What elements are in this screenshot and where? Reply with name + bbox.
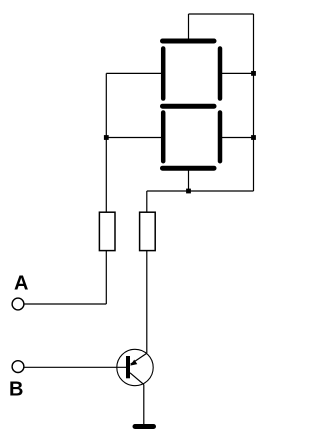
junction node bottom (186, 189, 191, 194)
display segment d (bottom) (163, 166, 215, 171)
wire bottom horizontal (147, 190, 254, 192)
wire right vertical rail (253, 14, 255, 191)
transistor Q1 base bar (126, 356, 130, 378)
wire R2 top lead (146, 191, 148, 212)
junction node right upper (251, 71, 256, 76)
resistor R1 (99, 212, 115, 250)
junction node on left rail (104, 135, 109, 140)
wire segment-e branch (106, 137, 161, 139)
wire terminal B to base (24, 366, 126, 368)
display segment b (top-right) (218, 49, 223, 99)
display segment g (middle) (163, 104, 215, 109)
wire terminal A to R1 (24, 303, 106, 305)
terminal B circle (12, 361, 24, 373)
transistor Q1 collector diagonal (131, 353, 147, 364)
svg-text:B: B (9, 379, 23, 401)
wire R1 bottom lead (105, 251, 107, 304)
display segment e (bottom-left) (161, 113, 166, 162)
svg-text:A: A (14, 273, 28, 295)
terminal A circle (12, 298, 24, 310)
wire top horizontal rail (189, 13, 254, 15)
transistor Q1 body circle (117, 349, 153, 385)
display segment a (top) (163, 39, 215, 44)
resistor R2 (140, 212, 156, 250)
transistor Q1 arrow (points to base) (130, 360, 137, 366)
wire emitter to ground (143, 385, 145, 425)
wire segment-c to right rail (222, 137, 254, 139)
display segment c (bottom-right) (218, 113, 223, 162)
wire segment-f branch (106, 72, 161, 74)
wire segment-b to right rail (222, 72, 254, 74)
wire from segment-a top to upper rail (188, 14, 190, 40)
junction node right lower (251, 135, 256, 140)
display segment f (top-left) (161, 49, 166, 99)
wire R2 bottom lead to collector (146, 251, 148, 353)
ground symbol (135, 424, 154, 429)
wire left vertical rail (to R1) (105, 73, 107, 211)
transistor Q1 emitter diagonal (130, 373, 144, 385)
wire segment-d to bottom node (188, 170, 190, 191)
